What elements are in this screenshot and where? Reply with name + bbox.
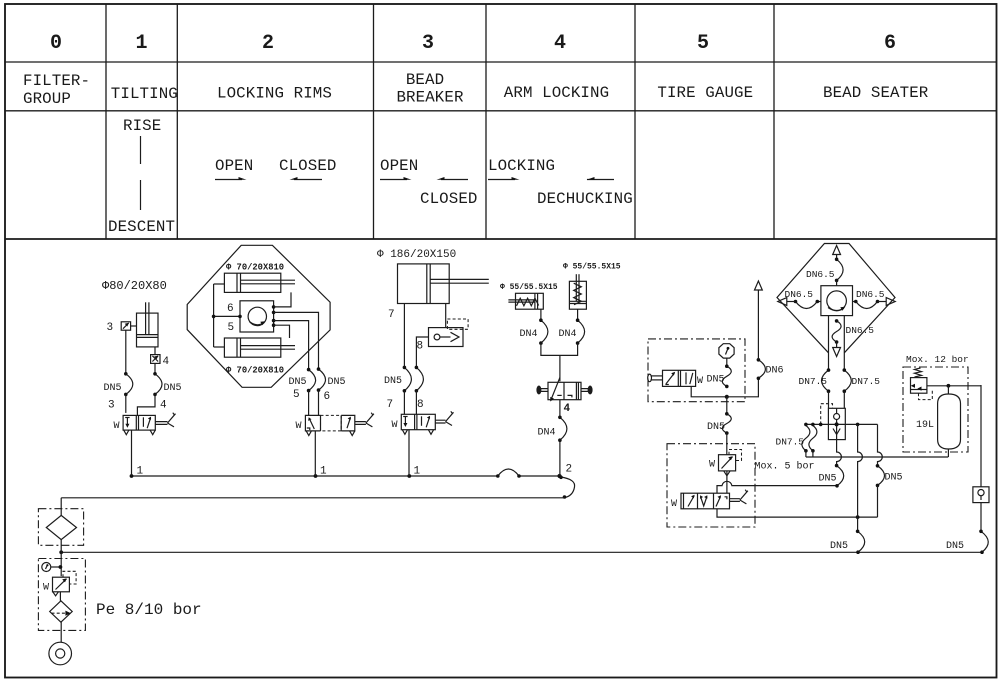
junction	[856, 515, 860, 519]
svg-text:7: 7	[387, 399, 394, 411]
wire port d	[274, 325, 290, 338]
svg-text:1: 1	[135, 32, 147, 55]
regulator R2	[709, 450, 742, 476]
svg-text:DN6.5: DN6.5	[856, 289, 885, 300]
svg-text:DN5: DN5	[885, 473, 903, 484]
valve V1 tilting	[114, 413, 176, 435]
coupling DN5 right branch	[876, 464, 903, 487]
filter group feed wire	[60, 498, 62, 516]
wire	[403, 391, 405, 415]
locking cylinder C3 bottom	[224, 338, 295, 357]
wire regulator to right	[927, 384, 981, 388]
hop crossings on line C	[837, 424, 883, 517]
svg-text:CLOSED: CLOSED	[420, 190, 477, 208]
svg-text:DN4: DN4	[559, 329, 577, 340]
wires to line C	[806, 451, 813, 457]
wire	[726, 358, 728, 366]
wire port b	[274, 312, 319, 369]
svg-text:1: 1	[137, 466, 144, 478]
left manifold wire	[212, 284, 240, 347]
svg-text:DN5: DN5	[946, 541, 964, 552]
coupling DN5	[707, 412, 731, 435]
svg-text:W: W	[671, 499, 677, 510]
svg-text:DECHUCKING: DECHUCKING	[537, 190, 633, 208]
valve V5 tire gauge	[648, 370, 703, 387]
svg-text:Φ 70/20X810: Φ 70/20X810	[226, 366, 284, 376]
wire line B	[804, 422, 877, 426]
wire	[60, 540, 62, 577]
wire	[836, 255, 838, 260]
svg-text:19L: 19L	[916, 420, 934, 431]
table header titles	[23, 71, 929, 108]
wire bus line 3	[59, 550, 982, 554]
wire	[877, 485, 879, 517]
wire right branch	[980, 385, 982, 487]
arm locking/dechucking cell	[488, 157, 633, 208]
junction	[725, 395, 729, 399]
Mox 12 bor dashdot box	[903, 367, 968, 452]
filter F1	[46, 515, 76, 539]
wire tee to valve	[541, 343, 578, 381]
svg-text:3: 3	[107, 322, 114, 334]
svg-text:Mox. 5 bor: Mox. 5 bor	[755, 461, 815, 473]
left arm coupling DN6.5	[778, 289, 821, 309]
wire	[408, 430, 410, 476]
svg-text:5: 5	[293, 389, 300, 401]
locking rims open/closed cell	[215, 157, 336, 180]
svg-text:W: W	[114, 421, 120, 432]
wire port c	[274, 321, 309, 370]
bead breaker cylinder C4	[398, 264, 489, 304]
coupling DN4 right	[559, 318, 585, 345]
wire	[559, 400, 561, 418]
coupling DN7.5 pair	[776, 426, 817, 453]
svg-text:DN5: DN5	[164, 383, 182, 394]
svg-text:3: 3	[108, 400, 115, 412]
svg-text:5: 5	[697, 32, 709, 55]
air tank 19L	[916, 386, 961, 457]
check valve CV1	[429, 304, 469, 347]
coupling DN5	[153, 372, 181, 396]
wire	[59, 592, 61, 601]
wire	[137, 394, 155, 415]
svg-text:TIRE GAUGE: TIRE GAUGE	[657, 84, 753, 102]
svg-text:RISE: RISE	[123, 117, 161, 135]
coupling DN5 left	[384, 366, 411, 393]
wires into check valve	[829, 391, 845, 408]
svg-text:LOCKING: LOCKING	[488, 157, 555, 175]
filter F2	[50, 601, 72, 622]
node 1 labels	[137, 466, 421, 478]
svg-text:DN5: DN5	[384, 376, 402, 387]
coupling DN5 right	[415, 366, 424, 393]
svg-text:LOCKING RIMS: LOCKING RIMS	[217, 85, 332, 103]
svg-text:Φ 55/55.5X15: Φ 55/55.5X15	[563, 263, 621, 272]
svg-text:Pe 8/10 bor: Pe 8/10 bor	[96, 601, 202, 619]
coupling DN5 to mox5 top line	[819, 464, 844, 488]
svg-text:Φ 55/55.5X15: Φ 55/55.5X15	[500, 283, 558, 292]
svg-text:DN4: DN4	[538, 428, 556, 439]
svg-text:DN4: DN4	[520, 329, 538, 340]
svg-text:0: 0	[50, 32, 62, 55]
svg-text:2: 2	[566, 464, 573, 476]
svg-text:DN5: DN5	[328, 377, 346, 388]
wire	[836, 280, 838, 285]
valve V6 mox5	[671, 490, 748, 510]
filter F1 box	[38, 509, 83, 546]
coupling DN6	[757, 358, 784, 380]
svg-text:1: 1	[414, 466, 421, 478]
arm lock cylinder C6 vertical	[569, 274, 586, 309]
wire	[131, 430, 133, 476]
svg-text:OPEN: OPEN	[215, 157, 253, 175]
wire junction right	[727, 378, 759, 397]
coupling DN6.5 bottom	[832, 319, 874, 344]
tilting rise/descent cell	[108, 117, 175, 236]
wire node 2 drop	[559, 440, 561, 476]
svg-text:1: 1	[320, 466, 327, 478]
rotary distributor U2	[821, 286, 853, 316]
wire 857 drop to bus 3	[857, 517, 859, 531]
svg-text:CLOSED: CLOSED	[279, 157, 336, 175]
wire	[577, 309, 579, 320]
svg-text:DESCENT: DESCENT	[108, 218, 175, 236]
exhaust arrow up	[833, 246, 841, 255]
svg-text:DN7.5: DN7.5	[799, 376, 828, 387]
coupling DN4	[538, 416, 567, 443]
wire	[726, 471, 728, 493]
flow control 4	[151, 347, 160, 364]
svg-text:DN6.5: DN6.5	[785, 289, 814, 300]
wire line C tank line	[806, 456, 948, 458]
coupling DN5 right end	[946, 530, 988, 555]
valve V3 bead breaker	[392, 411, 454, 434]
svg-text:8: 8	[417, 341, 424, 353]
flow control 3	[121, 322, 136, 330]
arm lock cylinder C5 horizontal	[508, 293, 543, 309]
wire	[540, 309, 542, 320]
svg-text:DN5: DN5	[707, 422, 725, 433]
svg-text:6: 6	[324, 391, 331, 403]
svg-text:BEAD SEATER: BEAD SEATER	[823, 84, 929, 102]
svg-text:8: 8	[417, 399, 424, 411]
bead breaker open/closed cell	[380, 157, 477, 208]
check valve CV2	[828, 408, 845, 439]
dashed pilot line	[821, 404, 833, 425]
svg-text:DN6.5: DN6.5	[806, 269, 835, 280]
svg-text:Φ80/20X80: Φ80/20X80	[102, 279, 167, 293]
svg-text:6: 6	[227, 303, 234, 315]
wire junction down	[726, 397, 728, 414]
svg-text:DN7.5: DN7.5	[776, 437, 805, 448]
svg-text:W: W	[296, 421, 302, 432]
wire	[980, 503, 982, 532]
svg-text:7: 7	[388, 309, 395, 321]
gauge G1	[42, 563, 63, 572]
Mox 5 bor dashdot box	[667, 444, 755, 527]
svg-text:DN5: DN5	[830, 541, 848, 552]
regulator R3	[911, 368, 933, 400]
coupling DN5 left	[289, 368, 316, 393]
svg-text:DN6: DN6	[766, 366, 784, 377]
wire valve bottom output	[717, 509, 878, 517]
svg-text:4: 4	[163, 356, 170, 368]
coupling DN7.5 channel right	[843, 368, 881, 393]
svg-text:4: 4	[564, 403, 571, 415]
wire	[416, 337, 428, 367]
wire	[403, 304, 405, 368]
tilting cylinder C1	[137, 302, 159, 347]
svg-text:ARM LOCKING: ARM LOCKING	[504, 84, 609, 102]
coupling DN7.5 channel left	[799, 368, 831, 393]
svg-text:W: W	[43, 583, 49, 594]
coupling on bus 1	[496, 469, 521, 478]
exhaust arrow down	[833, 342, 841, 357]
wire	[318, 390, 320, 415]
regulator group box	[38, 559, 85, 631]
tire gauge dashdot box	[648, 339, 745, 402]
svg-text:Φ 186/20X150: Φ 186/20X150	[377, 249, 456, 261]
locking rims octagon enclosure	[187, 245, 330, 387]
svg-text:BEAD: BEAD	[406, 71, 444, 89]
svg-text:3: 3	[422, 32, 434, 55]
rotary distributor U1	[238, 301, 275, 332]
svg-text:DN5: DN5	[289, 377, 307, 388]
coupling hook node 2 to bus 2	[559, 476, 574, 499]
svg-text:W: W	[697, 376, 703, 387]
air source S1	[49, 642, 72, 665]
table header numbers	[50, 32, 896, 55]
regulator R1	[43, 571, 76, 596]
svg-text:2: 2	[262, 32, 274, 55]
svg-text:DN5: DN5	[819, 474, 837, 485]
svg-text:Mox. 12 bor: Mox. 12 bor	[906, 354, 969, 365]
right arm coupling DN6.5	[853, 289, 896, 309]
blow fitting B1	[973, 487, 989, 503]
svg-text:4: 4	[554, 32, 566, 55]
coupling DN5	[104, 372, 133, 396]
svg-text:TILTING: TILTING	[111, 85, 178, 103]
svg-text:W: W	[392, 420, 398, 431]
svg-text:Φ 70/20X810: Φ 70/20X810	[226, 263, 284, 273]
pressure gauge G2	[719, 344, 734, 358]
valve V4 arm locking	[537, 378, 592, 402]
wire	[125, 394, 127, 413]
coupling DN6.5 top	[806, 258, 843, 283]
svg-text:OPEN: OPEN	[380, 157, 418, 175]
wire with exhaust arrow up	[755, 281, 763, 360]
locking cylinder C2 top	[224, 273, 295, 292]
bead seater diamond enclosure	[777, 244, 895, 353]
svg-text:DN5: DN5	[104, 383, 122, 394]
channel wires	[829, 316, 845, 371]
svg-text:4: 4	[160, 400, 167, 412]
svg-text:DN6.5: DN6.5	[846, 325, 875, 336]
wire bus line 2	[61, 497, 564, 499]
coupling DN5 gauge	[707, 364, 732, 388]
wire valve top output with hop	[717, 481, 837, 493]
wire	[60, 621, 62, 642]
wire	[125, 330, 127, 374]
svg-text:W: W	[709, 460, 715, 471]
svg-text:DN7.5: DN7.5	[852, 376, 881, 387]
svg-text:5: 5	[228, 322, 235, 334]
coupling DN5 right	[317, 367, 346, 392]
wire	[154, 363, 156, 373]
coupling DN4 left	[520, 318, 548, 345]
coupling DN5 to bus 3	[830, 530, 865, 555]
wire bus line 1	[130, 474, 562, 478]
svg-text:FILTER-: FILTER-	[23, 72, 90, 90]
wire port a	[274, 292, 291, 307]
valve V2 locking rims	[296, 413, 374, 436]
wire	[308, 391, 310, 416]
wire	[726, 433, 728, 455]
wire	[415, 391, 417, 415]
svg-text:BREAKER: BREAKER	[396, 89, 463, 107]
svg-text:DN5: DN5	[707, 375, 725, 386]
wire valve to junction	[691, 386, 727, 396]
svg-text:6: 6	[884, 32, 896, 55]
wire	[314, 431, 316, 476]
svg-text:GROUP: GROUP	[23, 90, 71, 108]
